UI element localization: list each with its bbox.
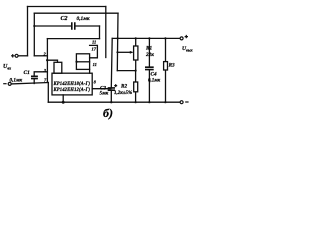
wire right vertical from inner top line bbox=[116, 13, 119, 70]
svg-text:11: 11 bbox=[92, 40, 96, 45]
wire C3 bottom lead bbox=[110, 91, 112, 102]
wire R3 bottom lead bbox=[165, 70, 167, 102]
svg-text:КР142ЕН12(А-Г): КР142ЕН12(А-Г) bbox=[53, 88, 91, 93]
svg-text:R2: R2 bbox=[121, 84, 127, 90]
wire left inner vertical bbox=[33, 13, 35, 56]
junction node IC input bbox=[46, 59, 48, 61]
wire R2 bottom lead bbox=[135, 92, 137, 102]
minus sign input bbox=[3, 83, 6, 85]
wire minus input lead bbox=[11, 83, 48, 84]
terminal output minus bbox=[180, 101, 183, 104]
junction node tab2 left bbox=[75, 61, 77, 63]
wire C1 top lead bbox=[34, 72, 47, 76]
svg-text:R3: R3 bbox=[169, 62, 175, 68]
wire input terminal lead bbox=[18, 55, 27, 57]
wire input to IC bbox=[34, 55, 47, 57]
resistor R3 bbox=[164, 62, 168, 70]
svg-text:Uвх: Uвх bbox=[3, 64, 11, 71]
wire C2 branch vertical bbox=[99, 26, 101, 39]
junction node rail C3 bbox=[110, 101, 112, 103]
capacitor C4 plates bbox=[145, 67, 154, 69]
minus sign output bbox=[185, 101, 188, 103]
svg-text:0,1мк: 0,1мк bbox=[148, 79, 161, 84]
resistor R1 bbox=[134, 46, 138, 60]
capacitor C2 plates bbox=[72, 22, 75, 29]
svg-text:R1: R1 bbox=[146, 45, 152, 51]
wire pin8 lead bbox=[92, 88, 111, 90]
svg-text:7: 7 bbox=[44, 77, 47, 82]
junction node adj R bbox=[135, 70, 137, 72]
terminal input minus bbox=[8, 82, 11, 85]
svg-text:С2: С2 bbox=[61, 16, 68, 22]
R1 wiper arrowhead bbox=[130, 51, 134, 54]
wire R1 top lead bbox=[135, 38, 137, 46]
svg-text:22к: 22к bbox=[145, 52, 154, 58]
wire R3 top lead bbox=[165, 38, 167, 61]
wire C2 right segment bbox=[76, 25, 100, 27]
svg-text:1,2к±5%: 1,2к±5% bbox=[114, 91, 132, 96]
capacitor C3 plates bbox=[108, 88, 115, 90]
wire tab2 divider bbox=[77, 61, 90, 63]
wire adj junction horizontal bbox=[117, 70, 135, 72]
svg-text:КР142ЕН18(А-Г): КР142ЕН18(А-Г) bbox=[53, 82, 91, 87]
wire top inner horizontal bbox=[34, 12, 118, 14]
svg-text:11: 11 bbox=[93, 62, 97, 67]
wire IC input vertical bbox=[46, 39, 48, 82]
svg-text:0,1мк: 0,1мк bbox=[10, 77, 23, 83]
svg-text:0,1мк: 0,1мк bbox=[77, 16, 90, 22]
junction node bus R1 bbox=[135, 37, 137, 39]
wire C4 bottom lead bbox=[148, 70, 150, 102]
wire C4 top lead bbox=[148, 38, 150, 66]
svg-text:Uвых: Uвых bbox=[182, 46, 193, 52]
wire horizontal node row bbox=[47, 38, 99, 40]
wire output bus bbox=[112, 37, 180, 39]
wire C3 top vertical bbox=[110, 38, 113, 87]
junction node rail R2 bbox=[135, 101, 137, 103]
junction node C2 branch left bbox=[33, 25, 35, 27]
svg-text:С4: С4 bbox=[151, 72, 157, 78]
wire minus down vertical bbox=[47, 83, 49, 103]
IC tab1 box bbox=[54, 62, 62, 73]
junction node rail gnd bbox=[62, 101, 65, 104]
plus sign output bbox=[185, 35, 188, 38]
plus sign input bbox=[11, 54, 14, 57]
wire top outer horizontal bbox=[28, 6, 106, 8]
wire R2 top lead bbox=[135, 71, 137, 82]
wire C1 bottom lead bbox=[33, 79, 35, 84]
wire vertical from outer top line down bbox=[105, 7, 107, 58]
svg-text:5мк: 5мк bbox=[100, 90, 109, 96]
IC tab2 box bbox=[76, 54, 89, 70]
junction node rail C4 bbox=[148, 101, 150, 103]
wire bottom rail bbox=[48, 101, 180, 103]
wire pin stub small box bbox=[90, 45, 98, 57]
junction node bus C4 bbox=[148, 37, 150, 39]
terminal output plus bbox=[180, 37, 183, 40]
IC U1 body bbox=[52, 73, 92, 95]
svg-text:б): б) bbox=[103, 106, 113, 120]
wire R1 wiper bbox=[117, 51, 131, 53]
terminal input plus bbox=[15, 54, 18, 57]
junction node top join bbox=[105, 12, 107, 14]
junction node bus R3 bbox=[164, 37, 166, 39]
resistor R2 bbox=[134, 82, 138, 92]
wire IC ground lead bbox=[62, 95, 64, 102]
wire C2 left segment bbox=[34, 25, 71, 27]
svg-text:8: 8 bbox=[94, 80, 97, 85]
capacitor C1 plates bbox=[31, 76, 38, 78]
wire R1 bottom lead bbox=[135, 60, 137, 71]
wire left outer vertical bbox=[27, 7, 29, 56]
wire tab2 right edge extension bbox=[89, 69, 91, 73]
junction node wiper bbox=[116, 51, 118, 53]
wire tab feed line bbox=[47, 60, 57, 62]
junction node bus vert2 bbox=[117, 37, 119, 39]
svg-text:С1: С1 bbox=[24, 70, 31, 76]
svg-text:17: 17 bbox=[92, 47, 97, 52]
junction node rail R3 bbox=[164, 101, 166, 103]
plus sign C3 bbox=[114, 84, 117, 87]
